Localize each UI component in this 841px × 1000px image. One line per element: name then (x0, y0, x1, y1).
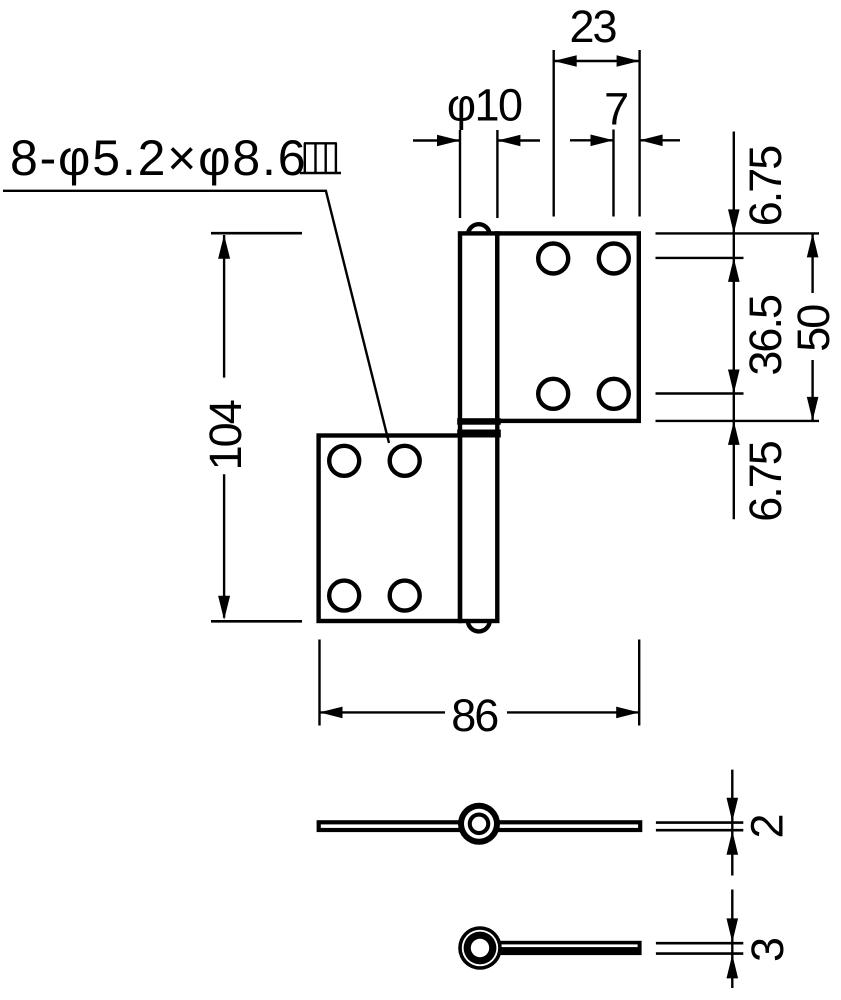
screw hole lower leaf bottom-right (390, 581, 420, 611)
dimension 3 line (727, 890, 739, 989)
side view open: leaf bar (480, 941, 642, 955)
dimension 2 line (727, 770, 739, 876)
dimension phi10 text (447, 80, 522, 131)
hole callout text 8-phi5.2 x phi8.6 (10, 130, 307, 186)
dimension 104 text (200, 400, 251, 470)
knuckle joint band upper (457, 418, 501, 425)
dimension 86 extension line left (318, 640, 320, 726)
dimension 23 text (569, 1, 616, 52)
svg-text:23: 23 (569, 1, 616, 52)
pin top cap (468, 224, 490, 235)
dimension 36.5 text (740, 295, 791, 376)
dimension 86 extension line right (638, 640, 640, 726)
dimension phi10 line left (413, 135, 460, 147)
dimension 23 extension line right (638, 50, 640, 217)
svg-text:6.75: 6.75 (740, 146, 791, 227)
hinge pin barrel (460, 233, 497, 621)
svg-text:104: 104 (200, 400, 251, 470)
dimension 6.75 top text (740, 146, 791, 227)
dimension 7 line left (570, 135, 614, 147)
dimension 50 text (788, 305, 839, 352)
screw hole upper leaf bottom-right (599, 379, 629, 409)
side view closed: leaf bar (319, 822, 641, 830)
dimension 6.75 bottom text (740, 441, 791, 522)
dimension 104 line (218, 235, 230, 620)
pin bottom cap (468, 620, 490, 631)
dimension phi10 line right (497, 135, 540, 147)
svg-text:8-φ5.2×φ8.6: 8-φ5.2×φ8.6 (10, 130, 307, 186)
svg-text:86: 86 (451, 690, 498, 741)
thickness 2 pointer lines (656, 823, 743, 831)
leader line for hole callout (3, 191, 389, 443)
svg-text:3: 3 (742, 937, 793, 962)
svg-text:50: 50 (788, 305, 839, 352)
dimension 23 line (554, 55, 640, 67)
dimension phi10 extension line right (496, 130, 498, 218)
dimension 7 extension line (612, 130, 614, 217)
screw hole upper leaf bottom-left (538, 379, 568, 409)
thickness 3 pointer lines (656, 943, 743, 953)
svg-text:φ10: φ10 (447, 80, 522, 131)
side view open: knuckle rings (458, 926, 502, 970)
dimension 3 text (742, 937, 793, 962)
dimension 2 text (741, 813, 792, 838)
dimension 7 text (604, 84, 629, 135)
svg-text:6.75: 6.75 (740, 441, 791, 522)
dimension 7 line right (640, 135, 680, 147)
countersink kanji symbol (300, 143, 341, 173)
svg-text:36.5: 36.5 (740, 295, 791, 376)
dimension 50 line (807, 233, 819, 421)
side view closed: knuckle rings (458, 803, 500, 845)
dimension 86 text (451, 690, 498, 741)
right chain extension line at bottom hole row (656, 392, 744, 394)
right chain extension line at leaf top (656, 232, 820, 234)
dimension 104 top tick (211, 232, 302, 235)
screw hole upper leaf top-left (538, 244, 568, 274)
right chain dimension line vertical (728, 132, 740, 520)
svg-text:2: 2 (741, 813, 792, 838)
knuckle joint band lower (457, 430, 501, 438)
lower leaf plate (319, 436, 460, 622)
screw hole lower leaf top-right (390, 446, 420, 476)
dimension 104 bottom tick (211, 620, 302, 623)
screw hole lower leaf bottom-left (329, 581, 359, 611)
dimension phi10 extension line left (459, 130, 461, 218)
svg-text:7: 7 (604, 84, 629, 135)
right chain extension line at leaf bottom (656, 420, 820, 422)
dimension 86 line (320, 707, 640, 719)
right chain extension line at top hole row (656, 257, 744, 259)
screw hole lower leaf top-left (329, 446, 359, 476)
upper leaf plate (497, 233, 639, 421)
screw hole upper leaf top-right (599, 244, 629, 274)
dimension 23 extension line left (553, 50, 555, 217)
